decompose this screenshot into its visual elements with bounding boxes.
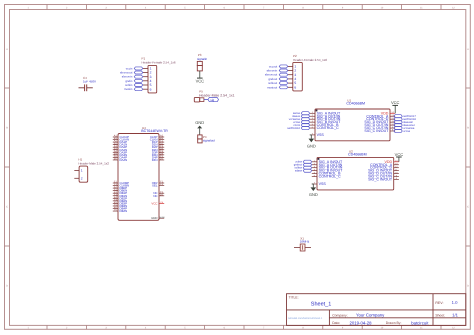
svg-text:DA4N: DA4N — [120, 158, 128, 162]
svg-text:VSS: VSS — [317, 133, 325, 137]
svg-text:6: 6 — [294, 85, 296, 89]
svg-text:Company:: Company: — [332, 313, 348, 317]
ground for U1 — [307, 139, 316, 149]
net label mosiin — [124, 87, 143, 91]
svg-text:VCC: VCC — [395, 152, 404, 157]
net label sleeve — [292, 115, 309, 119]
svg-text:C: C — [467, 206, 469, 209]
connector P3 — [197, 53, 208, 71]
svg-text:2019-04-28: 2019-04-28 — [350, 320, 373, 325]
net label vccse — [394, 129, 411, 133]
crystal X1 — [294, 237, 311, 251]
net label vccout — [269, 64, 288, 68]
net label gndout — [268, 77, 287, 81]
net label sdase — [295, 169, 312, 173]
net label sclkin — [125, 83, 143, 87]
svg-text:A8,B8: A8,B8 — [159, 216, 165, 219]
connector P2 — [288, 54, 328, 91]
svg-text:CD4066BM: CD4066BM — [346, 101, 365, 105]
svg-text:GND: GND — [195, 120, 204, 125]
svg-text:6: 6 — [150, 87, 152, 91]
svg-text:VCC: VCC — [196, 79, 205, 84]
ground for U2 — [309, 187, 318, 197]
pin VCC of U4 — [159, 202, 164, 204]
svg-text:TITLE:: TITLE: — [289, 296, 299, 300]
net label sleeveout — [120, 71, 143, 75]
net label gndout — [294, 163, 312, 167]
power VCC for U1 — [391, 100, 400, 113]
IC U1 — [310, 98, 395, 141]
net label sleevein — [267, 69, 288, 73]
svg-text:GND: GND — [151, 216, 157, 220]
svg-text:1.0: 1.0 — [452, 300, 458, 305]
net label sleeveout — [394, 124, 415, 128]
wire VSS to ground — [310, 135, 312, 139]
svg-text:DB4N: DB4N — [120, 209, 128, 213]
svg-text:mosiin: mosiin — [124, 87, 133, 91]
svg-text:VSS: VSS — [319, 182, 327, 186]
svg-text:1/1: 1/1 — [452, 313, 458, 318]
IC U4 — [113, 126, 168, 220]
svg-text:sig: sig — [210, 98, 214, 102]
net label sleevein — [394, 121, 414, 125]
wire P5 to net flag — [204, 99, 208, 101]
svg-text:Date:: Date: — [332, 321, 340, 325]
connector H1 — [74, 158, 109, 183]
svg-text:Header-Male 2.54_1x1: Header-Male 2.54_1x1 — [199, 93, 235, 97]
svg-text:16MHz: 16MHz — [300, 240, 310, 244]
net label setPoint18 — [394, 118, 417, 122]
net label mosiout — [267, 85, 288, 89]
svg-text:setPoint16: setPoint16 — [287, 127, 300, 130]
svg-text:Your Company: Your Company — [356, 313, 385, 318]
svg-text:mosiout: mosiout — [267, 85, 277, 89]
svg-text:vccse: vccse — [403, 130, 410, 133]
svg-text:C: C — [6, 206, 8, 209]
svg-text:1uF 450V: 1uF 450V — [83, 80, 96, 84]
svg-text:CONTROL_C: CONTROL_C — [319, 175, 342, 179]
net label vccsense — [394, 126, 415, 130]
svg-text:sdase: sdase — [295, 170, 303, 173]
wire P3 to VCC — [199, 71, 201, 78]
net label gndin — [125, 79, 142, 83]
svg-text:CD4066BM: CD4066BM — [348, 153, 367, 157]
wire VSS to ground for U2 — [312, 184, 314, 187]
net label sclkout — [268, 81, 288, 85]
pin GND of U4 — [159, 217, 164, 219]
net label sleeveout — [265, 73, 288, 77]
net label sclkse — [295, 166, 312, 170]
pin VSS of U2 — [312, 183, 317, 185]
ground — [195, 120, 204, 128]
svg-text:Header-Male 2.54_1x2: Header-Male 2.54_1x2 — [78, 161, 109, 165]
svg-text:D: D — [6, 285, 8, 288]
net label setPoint16 — [287, 126, 309, 130]
power VCC — [196, 78, 205, 84]
net label setPoint17 — [394, 115, 417, 119]
svg-text:SIG_C IN/OUT: SIG_C IN/OUT — [368, 178, 393, 182]
svg-text:signalin: signalin — [197, 57, 208, 61]
connector P4 — [198, 135, 215, 143]
net label vccin — [126, 66, 143, 70]
svg-text:Sheet_1: Sheet_1 — [311, 302, 332, 308]
net label vccse — [293, 121, 310, 125]
svg-text:GND: GND — [307, 143, 316, 148]
net label cont1 — [293, 124, 309, 128]
svg-text:VCC: VCC — [391, 100, 400, 105]
net label sense — [293, 112, 310, 116]
svg-text:SIG_C IN/OUT: SIG_C IN/OUT — [364, 129, 389, 133]
svg-text:oshwlab.com/batcircuit/sheet-1: oshwlab.com/batcircuit/sheet-1 — [288, 317, 323, 320]
svg-text:batcircuit: batcircuit — [411, 320, 429, 325]
svg-text:Header-Female 2.54_1x6: Header-Female 2.54_1x6 — [293, 58, 327, 62]
connector P1 — [142, 57, 176, 93]
svg-text:VCC: VCC — [151, 201, 157, 205]
capacitor C4 — [79, 76, 97, 91]
svg-text:REV:: REV: — [435, 301, 443, 305]
svg-text:GND: GND — [309, 192, 318, 197]
svg-text:Header-Female 2.54_1x6: Header-Female 2.54_1x6 — [142, 61, 176, 65]
svg-text:BCT644EWV-TR: BCT644EWV-TR — [141, 129, 168, 133]
svg-text:1: 1 — [81, 169, 83, 173]
svg-text:D5: D5 — [160, 158, 164, 161]
connector P5 — [194, 89, 234, 102]
wire GND to P4 — [199, 128, 201, 135]
net label pulse — [296, 160, 312, 164]
power VCC for U2 — [395, 152, 404, 162]
net label sleevein — [122, 75, 143, 79]
svg-text:Sheet:: Sheet: — [435, 313, 445, 317]
svg-text:NC: NC — [153, 194, 157, 198]
svg-text:D5: D5 — [160, 193, 164, 196]
net label sig — [208, 98, 219, 102]
svg-text:CONTROL_C: CONTROL_C — [317, 126, 340, 130]
pin VSS of U1 — [310, 134, 315, 136]
svg-text:SEL: SEL — [152, 184, 158, 188]
svg-text:B5: B5 — [114, 158, 118, 161]
svg-text:D4N: D4N — [152, 158, 158, 162]
svg-text:2: 2 — [81, 176, 83, 180]
svg-text:signalout: signalout — [203, 139, 215, 143]
svg-text:Drawn By:: Drawn By: — [386, 321, 402, 325]
IC U2 — [312, 150, 399, 190]
svg-text:D: D — [467, 285, 469, 288]
net label vccsense — [289, 118, 310, 122]
